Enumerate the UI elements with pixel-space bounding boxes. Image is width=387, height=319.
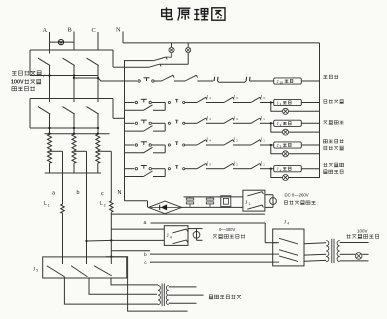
annotation line3 系统稳压 — [12, 86, 35, 91]
wire DC bottom rail — [111, 213, 265, 215]
capacitor C1 — [186, 197, 193, 208]
junction C row1 feed — [97, 77, 99, 79]
svg-text:10: 10 — [280, 81, 284, 85]
svg-text:DC 0—260V: DC 0—260V — [285, 193, 309, 198]
wire row2 loop cont — [153, 109, 165, 111]
wire row3 seg5 — [260, 122, 274, 124]
wire row5 seg4 — [233, 168, 247, 170]
wire c branch lower — [111, 250, 150, 252]
junction C QF2 bus — [97, 127, 99, 129]
bridge rectifier diode — [160, 204, 167, 210]
svg-text:L: L — [100, 201, 103, 207]
contact row1 K1 — [162, 75, 175, 81]
label 三相稳压回路 line2 — [323, 170, 343, 174]
wire row4 to right rail — [301, 144, 319, 146]
wire row3 stub — [125, 122, 135, 124]
wire row4 seg3 — [206, 144, 220, 146]
breaker QF2 pole C blade — [87, 107, 99, 115]
wire star bus — [45, 172, 101, 174]
contact holding J2 aux — [144, 126, 153, 132]
wire row5 to corner — [152, 168, 166, 170]
wire C below QF2 — [97, 114, 99, 134]
wire row2 to corner — [152, 102, 166, 104]
wire T2 out bottom — [169, 302, 197, 304]
contactor J4b pole1 — [273, 238, 298, 244]
junction A bottom bus — [48, 74, 50, 76]
wire line a lower — [62, 213, 64, 257]
wire tap B — [74, 150, 87, 152]
wire row3 loop cont — [153, 130, 165, 132]
annotation line2 100V输出到 — [11, 79, 41, 85]
indicator lamp HL6 — [355, 253, 362, 260]
relay coil J4 — [274, 166, 302, 173]
node a label — [52, 191, 55, 197]
autotransformer winding phase C — [96, 134, 100, 163]
wire J1 out top — [265, 194, 273, 196]
wire row5 seg2 — [185, 168, 193, 170]
wire row2 holding loop — [125, 109, 144, 111]
label 三相稳压回路 line1 — [323, 163, 343, 167]
contact row1 K2 — [185, 75, 198, 81]
wire row2 to right rail — [301, 102, 319, 104]
wire QF1 output to control — [113, 66, 125, 68]
wire winding A bottom — [49, 163, 51, 173]
junction winding1 top — [48, 133, 50, 135]
wire row5 loop cont — [153, 176, 165, 178]
wire tap A — [50, 150, 63, 152]
wire J4 out bottom stub — [197, 239, 203, 241]
junction B row1 feed — [73, 77, 75, 79]
junction winding2 top — [73, 133, 75, 135]
relay coil J3 — [274, 142, 302, 149]
interlock contact row4 a — [193, 138, 211, 145]
label 直流控制输出 — [284, 201, 315, 205]
breaker QF1 frame left — [29, 50, 31, 76]
label 交流回路 — [324, 120, 344, 124]
label 可调电流回路 line2 — [324, 146, 344, 150]
indicator lamp HL1 — [169, 47, 174, 52]
wire row4 seg5 — [260, 144, 274, 146]
indicator lamp HL4 branch — [270, 144, 320, 157]
relay coil J10 — [274, 78, 302, 85]
wire lamp HL2 drop — [187, 53, 189, 65]
breaker QF2 frame right — [112, 99, 114, 119]
bridge rectifier VC diamond — [148, 201, 181, 214]
interlock contact row3 c — [247, 116, 265, 123]
wire J5 out b — [89, 278, 157, 294]
contactor J1 box — [243, 190, 265, 211]
transformer T2 core — [162, 284, 164, 307]
breaker QF2 pole A blade — [38, 107, 50, 115]
wire lamp branch 2 — [125, 66, 150, 68]
svg-text:c: c — [101, 191, 104, 197]
node N2 label — [118, 190, 122, 196]
breaker QF2 pole B blade — [63, 107, 75, 115]
wire c in J5 — [110, 257, 112, 264]
svg-text:100V: 100V — [11, 80, 24, 86]
inductor L2 choke — [110, 201, 113, 212]
wire row4 holding loop — [125, 152, 144, 154]
breaker QF1 frame right — [112, 50, 114, 67]
junction winding3 top — [97, 133, 99, 135]
svg-text:a: a — [52, 191, 55, 197]
contactor J1 label — [245, 201, 250, 206]
contact holding J1 aux — [144, 105, 153, 111]
indicator lamp HL2 — [186, 47, 191, 52]
wire row1 to right rail — [301, 80, 319, 82]
pushbutton SB1 row1 — [138, 78, 154, 82]
thermal contact FR1 — [214, 77, 246, 82]
interlock contact row5 c — [247, 161, 265, 168]
wire T3 out top — [340, 242, 369, 244]
selector contact row4 — [168, 142, 185, 146]
interlock contact row4 c — [247, 138, 265, 145]
contact for lamp HL1 — [154, 57, 168, 61]
voltmeter PV2 — [193, 231, 200, 238]
contactor J5 pole c — [94, 266, 112, 276]
autotransformer winding phase A — [48, 134, 52, 163]
wire row3 seg2 — [185, 122, 193, 124]
label DC 0-260V — [285, 193, 309, 198]
wire J5 out c — [111, 278, 158, 285]
wire J4b out3 — [304, 259, 326, 262]
wire N jog to bridge — [147, 201, 149, 208]
control ladder left rail — [124, 60, 126, 201]
breaker QF1 pole B blade — [63, 58, 75, 66]
pushbutton SB5 row5 — [135, 166, 151, 170]
svg-text:N: N — [118, 190, 122, 196]
wire QF2 output to row3 — [113, 117, 125, 119]
svg-text:0—400V: 0—400V — [219, 227, 236, 232]
svg-text:J: J — [284, 220, 286, 225]
wire N top — [122, 32, 124, 43]
svg-text:2: 2 — [104, 203, 106, 207]
breaker QF1 frame top — [30, 49, 113, 51]
svg-text:4: 4 — [287, 222, 289, 226]
contactor J4b label — [284, 220, 289, 225]
annotation line1 隔离变电压 — [12, 71, 45, 79]
thermal contact FR2 — [246, 77, 250, 81]
wire winding C bottom — [97, 163, 99, 173]
wire to lamp HL1 — [166, 53, 171, 58]
bridge rectifier wire through — [148, 206, 181, 208]
pushbutton SB3 row3 — [135, 120, 151, 124]
label 直流回路 — [324, 100, 344, 104]
transformer T2 primary — [158, 286, 160, 305]
interlock contact row5 b — [220, 161, 238, 168]
wire b in J5 — [86, 257, 88, 264]
wire T2 out top — [169, 286, 197, 288]
wire c to J4 top input — [111, 228, 164, 230]
wire c top bypass — [106, 257, 188, 311]
wire row5 stub — [125, 168, 135, 170]
voltmeter PV2 riser — [196, 229, 198, 241]
wire lamp branch 2 cont — [160, 63, 188, 65]
wire B below QF2 — [73, 114, 75, 134]
contactor J4 box — [164, 226, 188, 246]
wire N to rectifier — [125, 200, 148, 202]
contactor J5 box — [43, 257, 127, 278]
contactor J5 pole b — [71, 266, 87, 277]
wire phase A drop — [49, 32, 51, 54]
label 主回路 — [323, 75, 338, 79]
interlock contact row3 b — [220, 116, 238, 123]
transformer T2 secondary — [166, 286, 168, 305]
wire T2 out mid — [169, 294, 204, 296]
wire row3 loop riser — [164, 123, 166, 131]
contactor J4 contact upper — [173, 229, 188, 233]
wire c to right box — [150, 261, 273, 263]
svg-text:C: C — [92, 27, 96, 34]
wire B below QF1 — [73, 66, 75, 102]
voltmeter PV1 — [270, 196, 277, 205]
label 可调电源输出 — [209, 295, 241, 299]
inductor L2 label — [100, 201, 106, 207]
junction B bottom bus — [73, 74, 75, 76]
wire row3 seg3 — [206, 122, 220, 124]
wire B-C link — [74, 77, 98, 79]
wire N feed to right rail — [123, 42, 320, 44]
indicator lamp HL3 branch — [270, 122, 320, 135]
wire row5 to right rail — [301, 168, 319, 170]
interlock contact row2 a — [193, 95, 211, 102]
indicator lamp HL5 branch — [270, 168, 320, 181]
svg-text:100V: 100V — [357, 229, 368, 234]
wire b to right box — [150, 253, 273, 255]
svg-text:a: a — [144, 220, 147, 226]
wire row1 seg1 — [155, 80, 162, 82]
interlock contact row2 c — [247, 95, 265, 102]
wire row1 seg2 — [174, 80, 185, 82]
contactor J5 pole a — [47, 266, 65, 277]
node c-wire label — [144, 261, 147, 266]
wire J5 out a — [64, 277, 158, 304]
contactor J1 contact upper — [247, 192, 263, 196]
contactor J4 label — [167, 234, 172, 239]
wire line a upper — [62, 151, 64, 204]
wire A below QF1 — [49, 66, 51, 102]
breaker QF2 frame left — [29, 99, 31, 129]
transformer T3 core — [332, 239, 334, 263]
wire row3 to corner — [152, 122, 166, 124]
wire T3 out mid — [340, 253, 355, 255]
label 三相稳压输出 — [346, 234, 378, 238]
svg-text:5: 5 — [36, 269, 38, 273]
junction B QF2 bus — [73, 127, 75, 129]
wire C below QF1 — [97, 66, 99, 102]
svg-text:N: N — [116, 27, 121, 34]
wire row5 seg3 — [206, 168, 220, 170]
node A label — [43, 27, 48, 34]
wire T3 out bottom — [340, 260, 369, 262]
wire J4 out top — [188, 228, 203, 230]
wire row5 loop riser — [164, 169, 166, 177]
svg-text:J: J — [167, 234, 169, 239]
node c label — [101, 191, 104, 197]
relay coil J2 — [274, 120, 302, 127]
wire lamp HL2 top stub — [187, 43, 189, 48]
control ladder right rail — [319, 43, 321, 178]
transformer T3 primary — [326, 241, 329, 262]
wire J1 out bottom — [265, 206, 273, 208]
inductor L1 label — [44, 201, 50, 207]
contact holding J4 aux — [144, 171, 153, 177]
annotation dash — [44, 74, 49, 77]
wire QF1 bottom bus — [30, 75, 98, 77]
node a-wire label — [144, 220, 147, 226]
wire row1 seg4 — [250, 80, 274, 82]
wire row2 seg4 — [233, 102, 247, 104]
contactor J1 contact lower — [247, 205, 263, 209]
wire a drop to 3pole box — [264, 223, 266, 243]
wire DC top rail — [184, 196, 243, 198]
node b-wire label — [144, 252, 147, 258]
breaker QF1 pole A blade — [38, 58, 50, 66]
wire phase C drop — [97, 32, 99, 50]
wire winding B bottom — [73, 163, 75, 173]
transformer T3 secondary — [337, 241, 340, 262]
wire DC mid rail — [182, 206, 243, 208]
contact for lamp HL2 — [149, 64, 161, 67]
wire row2 loop riser — [164, 103, 166, 111]
wire A below QF2 — [49, 114, 51, 134]
title text 电原理图 — [162, 7, 225, 20]
contactor J4b pole2 — [273, 250, 298, 256]
interlock contact row5 a — [193, 161, 211, 168]
wire row3 to right rail — [301, 122, 319, 124]
wire row4 to corner — [152, 144, 166, 146]
svg-text:J: J — [33, 267, 35, 272]
node C label — [92, 27, 96, 34]
svg-text:b: b — [144, 252, 147, 258]
contactor J4 contact lower — [173, 240, 188, 244]
wire link A-B for voltmeter — [50, 41, 75, 43]
wire row2 seg5 — [260, 102, 274, 104]
label 0-400V — [219, 227, 236, 232]
wire line c upper — [110, 151, 112, 201]
svg-text:J: J — [245, 201, 247, 206]
wire row4 stub — [125, 144, 135, 146]
indicator lamp HL2 branch — [270, 101, 320, 114]
breaker QF2 frame top — [30, 98, 113, 100]
svg-text:L: L — [44, 201, 47, 207]
svg-text:1: 1 — [249, 202, 251, 206]
wire lamp branch 1 — [125, 60, 154, 62]
selector contact row2 — [168, 99, 185, 103]
wire phase B drop — [73, 32, 75, 51]
wire row4 loop cont — [153, 152, 165, 154]
capacitor C2 — [206, 197, 213, 208]
wire J4b out2 — [304, 253, 326, 256]
wire row3 seg4 — [233, 122, 247, 124]
voltmeter PV1 riser — [272, 195, 274, 208]
svg-text:4: 4 — [170, 235, 172, 239]
pushbutton SB4 row4 — [135, 142, 151, 146]
node N label — [116, 27, 121, 34]
interlock contact row3 a — [193, 116, 211, 123]
node b label — [77, 190, 80, 196]
breaker QF1 pole C blade — [87, 58, 99, 66]
wire a output — [151, 222, 266, 224]
wire a in J5 — [62, 257, 64, 264]
wire row2 seg2 — [185, 102, 193, 104]
selector contact row5 — [168, 166, 185, 170]
wire QF2 bottom bus — [30, 127, 98, 129]
junction A QF2 bus — [48, 127, 50, 129]
wire row2 stub — [125, 102, 135, 104]
wire winding top bus — [45, 133, 110, 135]
wire c to J4 bottom input — [111, 239, 164, 241]
interlock contact row4 b — [220, 138, 238, 145]
wire row3 holding loop — [125, 130, 144, 132]
wire row2 seg3 — [206, 102, 220, 104]
label 可调电流回路 line1 — [323, 139, 343, 143]
interlock contact row2 b — [220, 95, 238, 102]
autotransformer winding phase B — [72, 134, 76, 163]
wire row5 seg5 — [260, 168, 274, 170]
wire b to c link — [87, 239, 112, 242]
wire row4 loop riser — [164, 145, 166, 153]
selector contact row3 — [168, 120, 185, 124]
wire lamp HL1 top stub — [171, 43, 173, 48]
contactor J4b pole3 — [273, 256, 298, 262]
inductor L1 choke — [61, 204, 64, 213]
junction c mid — [110, 239, 112, 241]
resistor module R1 — [221, 196, 231, 207]
contact holding J3 aux — [144, 147, 153, 153]
wire C to row1 — [98, 78, 137, 81]
svg-text:b: b — [77, 190, 80, 196]
wire T3 out mid2 — [362, 253, 368, 255]
wire J4b out1 — [304, 243, 326, 244]
svg-text:B: B — [68, 27, 72, 34]
wire line b — [86, 151, 88, 257]
label 100V — [357, 229, 368, 234]
wire row4 seg4 — [233, 144, 247, 146]
label 交流控制输出 — [213, 234, 245, 238]
wire a into box — [265, 242, 277, 244]
relay coil J1 — [274, 99, 302, 106]
wire row1 seg3 — [197, 80, 213, 82]
wire row5 holding loop — [125, 176, 144, 178]
contactor J5 label — [33, 267, 38, 272]
svg-text:1: 1 — [48, 203, 50, 207]
node B label — [68, 27, 72, 34]
contactor J4b box — [273, 229, 304, 266]
voltmeter PV between A and B — [58, 40, 63, 45]
junction c lower — [110, 256, 112, 258]
wire row4 seg2 — [185, 144, 193, 146]
wire tap C — [98, 150, 112, 152]
wire line c lower — [110, 213, 112, 257]
svg-text:A: A — [43, 27, 48, 34]
pushbutton SB2 row2 — [135, 99, 151, 103]
junction b branch — [85, 240, 87, 242]
